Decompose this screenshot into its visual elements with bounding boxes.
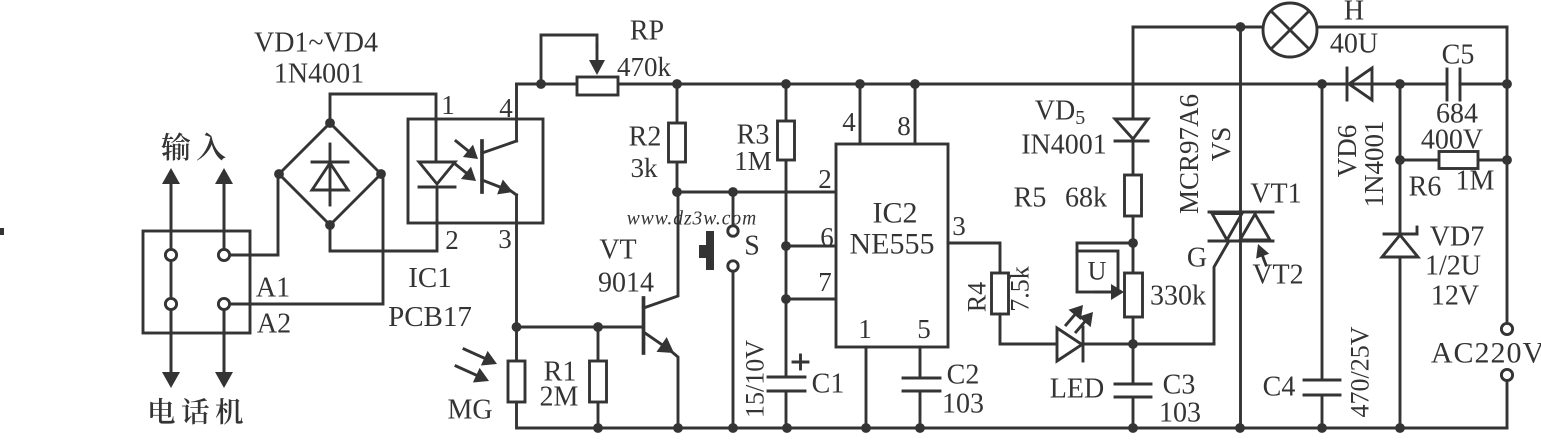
- svg-text:R6: R6: [1409, 172, 1442, 203]
- svg-text:C4: C4: [1263, 372, 1296, 403]
- wire lamp right to AC column: [1317, 26, 1507, 29]
- junction bottom rail / R1: [593, 423, 603, 433]
- svg-text:2: 2: [818, 164, 832, 194]
- telephone terminal box: [143, 231, 250, 333]
- wire 330k bottom: [1132, 317, 1135, 344]
- svg-text:3: 3: [952, 211, 966, 241]
- diode VD5: [1115, 119, 1148, 139]
- triac VT2 arrow: [1262, 254, 1266, 265]
- svg-text:VD1~VD4: VD1~VD4: [254, 28, 378, 59]
- triac right triangle: [1240, 214, 1270, 240]
- svg-text:R2: R2: [629, 122, 662, 153]
- wire right column top: [223, 186, 226, 255]
- op-amp/timer IC2 NE555 box: [836, 144, 948, 347]
- capacitor C3: [1132, 344, 1135, 384]
- svg-text:www.dz3w.com: www.dz3w.com: [627, 209, 757, 230]
- transistor VT collector: [644, 192, 679, 308]
- junction bottom rail / C4: [1317, 423, 1327, 433]
- zener diode VD7: [1384, 233, 1417, 236]
- svg-text:C5: C5: [1442, 40, 1475, 71]
- junction bottom rail / triac: [1235, 423, 1245, 433]
- bottom rail wire: [517, 427, 1507, 430]
- svg-text:VS: VS: [1206, 127, 1236, 162]
- IC1 phototransistor bar: [480, 141, 484, 192]
- svg-text:IC2: IC2: [873, 197, 918, 230]
- wire top of VD5 chain: [1132, 27, 1135, 119]
- junction C5 right: [1502, 79, 1512, 89]
- variable resistor 330k body: [1125, 273, 1143, 317]
- IC2 pin5 lead: [919, 347, 922, 378]
- svg-text:9014: 9014: [598, 268, 654, 299]
- svg-text:330k: 330k: [1150, 281, 1206, 312]
- terminal circle top-left: [165, 249, 176, 260]
- junction R6 left: [1395, 155, 1405, 165]
- IC1 emitter with arrow: [482, 180, 502, 188]
- svg-text:VD6: VD6: [1332, 125, 1362, 178]
- MG light arrow 1: [464, 349, 486, 359]
- svg-text:MG: MG: [447, 395, 492, 426]
- label 输入 (input): [161, 132, 225, 160]
- svg-text:RP: RP: [630, 16, 664, 47]
- telephone arrow left (down): [170, 310, 173, 374]
- bridge inner diode symbol: [329, 144, 332, 205]
- svg-text:15/10V: 15/10V: [741, 340, 770, 418]
- terminal circle bottom-left: [165, 298, 176, 309]
- wire top AC row: [1133, 26, 1263, 29]
- U box arrow: [1096, 291, 1113, 294]
- AC terminal top: [1501, 323, 1512, 334]
- LED diode: [1057, 328, 1082, 361]
- capacitor C1: [768, 376, 805, 379]
- svg-text:1N4001: 1N4001: [274, 59, 364, 90]
- wire right column bottom: [223, 304, 226, 383]
- transistor VT base wire: [517, 326, 644, 329]
- RP wiper arrow: [596, 44, 599, 62]
- svg-text:IC1: IC1: [408, 262, 452, 294]
- wire R4 bottom to LED: [1000, 314, 1057, 344]
- resistor R2 body: [669, 123, 686, 162]
- svg-text:68k: 68k: [1065, 183, 1107, 214]
- capacitor C5: [1446, 69, 1449, 100]
- svg-text:8: 8: [897, 111, 911, 141]
- junction pin7: [781, 294, 791, 304]
- triac top bar: [1209, 211, 1273, 214]
- svg-text:AC220V: AC220V: [1431, 337, 1541, 370]
- input arrow right (up): [223, 182, 226, 230]
- wire NE555 pin7: [786, 298, 836, 301]
- resistor R4 body: [992, 273, 1009, 314]
- svg-text:470/25V: 470/25V: [1346, 326, 1375, 417]
- svg-text:4: 4: [499, 93, 513, 123]
- switch S actuator bar: [706, 231, 714, 270]
- svg-text:NE555: NE555: [850, 228, 935, 261]
- triac VS main vertical: [1239, 27, 1242, 428]
- terminal circle bottom-right: [218, 298, 229, 309]
- wire LED cathode to gate node: [1083, 343, 1214, 346]
- svg-text:VT2: VT2: [1252, 260, 1303, 291]
- telephone arrow right (down): [223, 310, 226, 374]
- svg-text:3: 3: [498, 224, 512, 254]
- capacitor C2: [903, 377, 940, 380]
- resistor R6 leads: [1400, 159, 1439, 162]
- junction bottom rail / C3: [1128, 423, 1138, 433]
- junction pin6: [781, 241, 791, 251]
- svg-text:470k: 470k: [617, 52, 672, 82]
- C1 plus sign: [793, 361, 808, 364]
- svg-text:LED: LED: [1050, 374, 1104, 405]
- junction IC2 pin4 / rail: [855, 79, 865, 89]
- bridge left corner junction: [274, 169, 284, 179]
- wire phone top-right terminal to bridge left corner: [230, 175, 278, 255]
- svg-text:103: 103: [942, 389, 984, 420]
- wire right AC column: [1506, 27, 1509, 323]
- IC1 light arrow 1: [456, 141, 470, 152]
- svg-text:C1: C1: [812, 369, 845, 400]
- junction VD6 / R6 / VD7 column: [1395, 79, 1405, 89]
- bridge right corner junction: [376, 169, 386, 179]
- svg-text:C3: C3: [1163, 370, 1196, 401]
- photoresistor MG: [515, 327, 518, 361]
- junction 330k bottom / C3: [1128, 339, 1138, 349]
- junction R2 bottom / VT collector / pin2: [672, 187, 682, 197]
- lamp H: [1263, 3, 1317, 57]
- svg-text:1: 1: [858, 314, 872, 344]
- svg-text:7: 7: [818, 267, 832, 297]
- svg-text:4: 4: [842, 107, 856, 137]
- svg-text:7.5k: 7.5k: [1006, 266, 1035, 312]
- junction C4 top: [1317, 79, 1327, 89]
- capacitor C4: [1321, 84, 1324, 380]
- wire bridge top to IC1 pin1: [330, 94, 436, 123]
- wire R6 column: [1399, 84, 1402, 234]
- bridge rectifier VD1~VD4 diamond: [279, 123, 381, 225]
- junction bottom rail / IC2 pin1: [861, 423, 871, 433]
- wire R5 bottom to junction: [1132, 216, 1135, 273]
- LED light arrow 1: [1066, 313, 1076, 325]
- svg-text:R4: R4: [963, 282, 992, 312]
- IC2 pin4 lead: [859, 84, 862, 144]
- wire R3 bottom down to pin6/pin7/C1 column: [785, 160, 788, 377]
- IC1 pin4 + collector: [515, 84, 518, 141]
- resistor R2 leads: [676, 84, 679, 123]
- wire NE555 pin6: [786, 245, 836, 248]
- svg-text:5: 5: [917, 314, 931, 344]
- svg-text:40U: 40U: [1330, 29, 1378, 60]
- svg-text:1M: 1M: [1456, 166, 1495, 197]
- svg-text:PCB17: PCB17: [388, 301, 472, 333]
- svg-text:G: G: [1187, 243, 1207, 274]
- U control box: [1077, 243, 1133, 251]
- svg-text:1M: 1M: [734, 146, 772, 176]
- IC2 pin8 lead: [914, 84, 917, 144]
- wire left column through terminals: [170, 186, 173, 383]
- junction bottom rail / switch: [728, 423, 738, 433]
- svg-text:VT1: VT1: [1250, 179, 1301, 210]
- transistor VT emitter with arrow: [644, 332, 664, 346]
- svg-text:400V: 400V: [1421, 125, 1483, 156]
- LED light arrow 2: [1076, 320, 1086, 332]
- triac left triangle: [1212, 214, 1242, 241]
- resistor R3 body: [778, 121, 795, 160]
- svg-text:1: 1: [441, 90, 455, 120]
- junction lamp / triac: [1236, 22, 1246, 32]
- junction bottom rail / C2: [915, 423, 925, 433]
- resistor R5 body: [1125, 175, 1142, 216]
- AC terminal bottom: [1501, 369, 1512, 380]
- svg-text:VT: VT: [599, 235, 636, 266]
- wire NE555 pin2 row: [677, 191, 836, 194]
- wire AC bottom to rail: [1506, 381, 1509, 428]
- potentiometer RP body: [577, 77, 618, 95]
- svg-text:VD7: VD7: [1430, 222, 1484, 253]
- triac bottom bar: [1209, 240, 1273, 243]
- bridge top corner junction: [325, 118, 335, 128]
- op-to-coupler IC1 PCB17 box: [408, 119, 543, 223]
- svg-text:1/2U: 1/2U: [1425, 251, 1481, 282]
- resistor R6 body: [1439, 152, 1478, 169]
- svg-text:12V: 12V: [1431, 281, 1479, 312]
- svg-text:3k: 3k: [631, 153, 659, 183]
- svg-text:2M: 2M: [540, 382, 579, 413]
- svg-text:2: 2: [445, 225, 459, 255]
- small stray mark at left edge: [0, 228, 4, 235]
- svg-text:A2: A2: [257, 309, 291, 340]
- svg-text:C2: C2: [947, 360, 980, 391]
- svg-text:103: 103: [1159, 398, 1201, 429]
- svg-text:H: H: [1344, 0, 1364, 27]
- junction bottom rail / VD7: [1395, 423, 1405, 433]
- resistor R3 lead top: [785, 84, 788, 121]
- top rail right segment after C5: [1460, 83, 1507, 86]
- resistor R1 leads: [597, 327, 600, 361]
- junction R5 / U-box / 330k: [1128, 238, 1138, 248]
- junction IC1 pin3 / MG / base: [512, 322, 522, 332]
- svg-text:A1: A1: [256, 273, 290, 304]
- wire node A1: phone bottom-right terminal to bridge right corner: [230, 175, 383, 304]
- wire bridge bottom to IC1 pin2: [330, 221, 437, 251]
- svg-text:1N4001: 1N4001: [1359, 121, 1389, 208]
- svg-text:6: 6: [820, 222, 834, 252]
- wire IC1 pin3 down to base node: [515, 223, 518, 327]
- input arrow left (up): [170, 182, 173, 230]
- wire IC2 pin3 to R4: [948, 243, 1000, 273]
- junction IC2 pin8 / rail: [910, 79, 920, 89]
- junction R1 top: [593, 322, 603, 332]
- RP wiper loop wire: [541, 35, 597, 84]
- svg-text:U: U: [1088, 257, 1107, 286]
- bridge bottom corner junction: [325, 220, 335, 230]
- svg-text:MCR97A6: MCR97A6: [1174, 94, 1204, 214]
- junction switch top / pin2: [728, 187, 738, 197]
- IC1 light arrow 2: [454, 163, 468, 174]
- junction bottom rail / C1: [782, 423, 792, 433]
- svg-text:S: S: [744, 231, 760, 262]
- junction RP left: [536, 79, 546, 89]
- terminal circle top-right: [218, 249, 229, 260]
- IC1 internal LED: [435, 119, 438, 162]
- junction bottom rail / VT emitter: [673, 423, 683, 433]
- junction R2 top: [672, 79, 682, 89]
- resistor R1 body: [590, 361, 607, 402]
- switch S contacts: [732, 197, 735, 225]
- transistor VT base bar: [642, 298, 646, 353]
- MG light arrow 2: [456, 366, 478, 376]
- junction R3 top: [781, 79, 791, 89]
- svg-text:IN4001: IN4001: [1021, 130, 1107, 161]
- top supply rail wire: [517, 83, 1448, 86]
- label 电话机 (telephone set): [150, 398, 243, 425]
- diode VD6 (on rail, pointing left): [1346, 68, 1349, 100]
- IC2 pin1 lead to ground: [865, 347, 868, 428]
- junction R6 right: [1502, 155, 1512, 165]
- wire gate riser: [1214, 241, 1229, 344]
- svg-text:R5: R5: [1014, 183, 1047, 214]
